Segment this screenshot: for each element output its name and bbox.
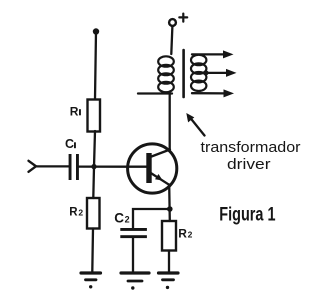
resistor R1 [88, 100, 101, 132]
annotation arrow to transformer [186, 113, 204, 136]
ground (left) [81, 273, 101, 288]
svg-text:C: C [65, 137, 74, 151]
svg-text:transformador: transformador [201, 139, 301, 156]
transformer core [182, 50, 185, 97]
transformer supply terminal [169, 19, 176, 26]
wire input to C1 [35, 165, 69, 167]
svg-text:Figura 1: Figura 1 [219, 204, 275, 226]
wire R2 emitter to ground [168, 251, 170, 272]
svg-text:R: R [70, 104, 79, 118]
wire junction down to R2 [92, 167, 95, 198]
wire emitter to junction and R2 [168, 185, 171, 222]
resistor R2 (emitter) [162, 221, 176, 251]
transistor Q1 [128, 144, 177, 193]
wire primary bottom lead [138, 92, 172, 94]
wire terminal to primary [171, 26, 172, 54]
ground (right) [159, 273, 179, 289]
wire collector to transformer [169, 94, 171, 151]
capacitor C1 [69, 154, 79, 180]
wire secondary top output arrow [192, 50, 234, 58]
wire junction to C2 [133, 209, 168, 229]
wire R1 to base junction [94, 131, 95, 167]
resistor R2 (bias) [87, 198, 100, 229]
svg-text:driver: driver [227, 156, 271, 173]
label R1 [70, 104, 81, 118]
wire center tap output arrow [206, 69, 236, 77]
node secondary center tap [204, 71, 209, 76]
label C1 [65, 137, 76, 151]
node base junction [91, 164, 96, 169]
wire C2 to ground [132, 238, 134, 272]
transformer T1 primary winding [158, 56, 174, 92]
node supply dot top-left [93, 28, 99, 34]
svg-text:R2: R2 [178, 227, 192, 241]
label plus [179, 14, 187, 22]
svg-text:R2: R2 [69, 207, 83, 219]
wire supply dot to R1 [95, 32, 96, 100]
ground (center) [121, 273, 149, 290]
input terminal arrow [29, 161, 37, 172]
wire C1 to transistor base [79, 165, 147, 167]
svg-text:C2: C2 [114, 210, 129, 225]
node emitter junction [167, 206, 173, 212]
transformer T1 secondary winding [191, 55, 206, 91]
wire secondary bottom output arrow [192, 89, 234, 97]
wire R2 to ground [91, 229, 94, 272]
capacitor C2 [120, 228, 147, 238]
